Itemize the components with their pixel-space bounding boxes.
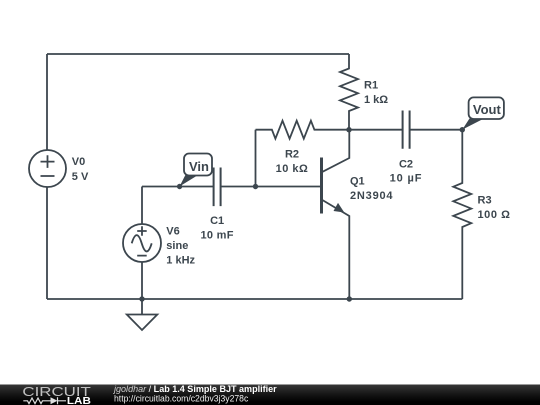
svg-text:Vout: Vout bbox=[473, 102, 502, 117]
svg-text:http://circuitlab.com/c2dbv3j3: http://circuitlab.com/c2dbv3j3y278c bbox=[114, 393, 249, 404]
svg-text:Q1: Q1 bbox=[350, 176, 365, 188]
wire top rail bbox=[47, 53, 349, 55]
capacitor C1 bbox=[214, 168, 221, 207]
svg-text:R2: R2 bbox=[285, 149, 299, 161]
svg-text:V0: V0 bbox=[72, 156, 85, 168]
logo mini schematic bbox=[23, 397, 66, 404]
node Vout flag bbox=[462, 97, 504, 129]
svg-text:1 kHz: 1 kHz bbox=[166, 254, 195, 266]
capacitor C2 bbox=[403, 111, 410, 149]
svg-text:10 kΩ: 10 kΩ bbox=[276, 163, 309, 175]
resistor R3 bbox=[453, 130, 471, 299]
svg-text:sine: sine bbox=[166, 240, 188, 252]
node R2-base junction bbox=[253, 184, 258, 189]
resistor R1 bbox=[340, 54, 358, 130]
ground bbox=[127, 299, 158, 330]
wire mid rail to C2 bbox=[349, 129, 403, 131]
wire bottom rail bbox=[47, 298, 462, 300]
wire R2 left vertical bbox=[255, 130, 257, 187]
svg-text:2N3904: 2N3904 bbox=[350, 190, 393, 202]
svg-text:C2: C2 bbox=[399, 158, 413, 170]
svg-text:R1: R1 bbox=[364, 80, 378, 92]
node Vout dot bbox=[460, 127, 465, 132]
svg-text:5 V: 5 V bbox=[72, 171, 89, 183]
svg-text:Vin: Vin bbox=[189, 159, 209, 174]
svg-text:10 mF: 10 mF bbox=[200, 229, 233, 241]
voltage source V0 bbox=[29, 150, 66, 187]
voltage source V6 bbox=[123, 224, 161, 262]
resistor R2 bbox=[256, 121, 350, 139]
svg-text:V6: V6 bbox=[166, 226, 179, 238]
wire input rail bbox=[142, 186, 214, 188]
svg-text:R3: R3 bbox=[478, 195, 492, 207]
svg-text:10 µF: 10 µF bbox=[390, 173, 423, 185]
transistor Q1 bbox=[322, 130, 350, 299]
wire C2 to Vout node bbox=[410, 129, 463, 131]
wire left rail lower bbox=[46, 187, 48, 299]
wire left rail upper bbox=[46, 54, 48, 150]
node ground junction bbox=[139, 296, 144, 301]
footer bar bbox=[0, 384, 540, 405]
svg-text:C1: C1 bbox=[210, 215, 224, 227]
node collector junction bbox=[346, 127, 351, 132]
svg-text:100 Ω: 100 Ω bbox=[478, 209, 511, 221]
node Vin dot bbox=[177, 184, 182, 189]
wire V6 top lead bbox=[141, 187, 143, 225]
wire C1 to base bbox=[221, 186, 322, 188]
wire V6 bottom lead bbox=[141, 262, 143, 299]
svg-text:LAB: LAB bbox=[67, 395, 91, 405]
node emitter-bottom junction bbox=[347, 296, 352, 301]
node Vin flag bbox=[180, 154, 212, 187]
svg-text:1 kΩ: 1 kΩ bbox=[364, 94, 388, 106]
